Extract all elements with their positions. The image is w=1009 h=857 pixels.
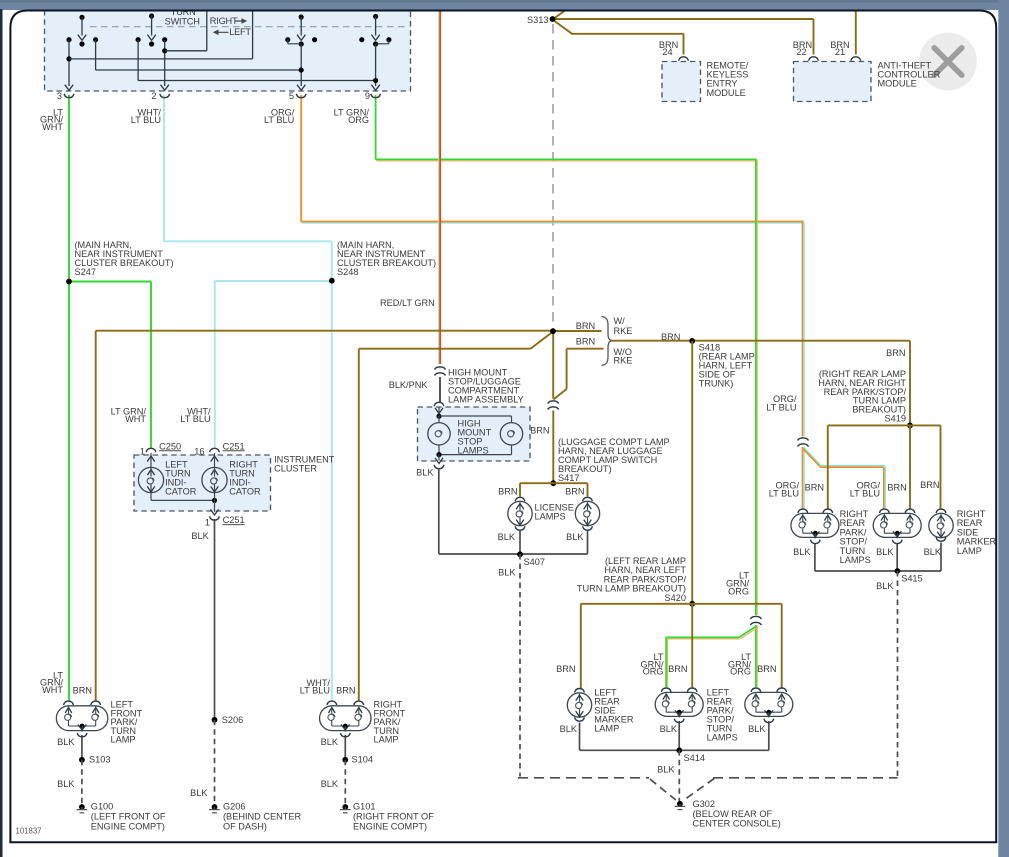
svg-text:S206: S206 — [222, 715, 243, 725]
svg-text:1: 1 — [140, 446, 145, 456]
svg-text:BLK: BLK — [321, 737, 339, 747]
svg-text:LAMPS: LAMPS — [535, 512, 566, 522]
svg-text:S103: S103 — [89, 755, 110, 765]
svg-text:ORG: ORG — [728, 587, 749, 597]
svg-text:BRN: BRN — [336, 686, 355, 696]
svg-text:RIGHT: RIGHT — [210, 16, 238, 26]
svg-text:BLK: BLK — [560, 724, 578, 734]
svg-text:LT BLU: LT BLU — [131, 115, 161, 125]
svg-text:BRN: BRN — [920, 480, 939, 490]
svg-text:LEFT: LEFT — [229, 27, 251, 37]
svg-text:ORG: ORG — [730, 667, 751, 677]
svg-text:BLK: BLK — [321, 779, 339, 789]
svg-text:OF DASH): OF DASH) — [223, 821, 267, 831]
svg-text:LAMPS: LAMPS — [707, 733, 738, 743]
svg-text:WHT: WHT — [42, 685, 63, 695]
svg-text:G206: G206 — [223, 802, 245, 812]
svg-text:BLK: BLK — [57, 737, 75, 747]
svg-text:ENGINE COMPT): ENGINE COMPT) — [353, 821, 427, 831]
svg-text:RED/LT GRN: RED/LT GRN — [380, 298, 435, 308]
svg-text:22: 22 — [796, 47, 806, 57]
svg-text:BLK: BLK — [748, 724, 766, 734]
svg-text:G100: G100 — [91, 802, 113, 812]
svg-text:BRN: BRN — [805, 483, 824, 493]
svg-text:LT BLU: LT BLU — [850, 489, 880, 499]
svg-text:LAMP: LAMP — [374, 735, 399, 745]
svg-text:BRN: BRN — [565, 487, 584, 497]
svg-text:WHT: WHT — [125, 414, 146, 424]
svg-text:S313: S313 — [527, 15, 548, 25]
svg-text:(BELOW REAR OF: (BELOW REAR OF — [693, 809, 773, 819]
svg-text:TRUNK): TRUNK) — [699, 378, 734, 388]
svg-text:CENTER CONSOLE): CENTER CONSOLE) — [693, 819, 781, 829]
svg-text:LAMP: LAMP — [957, 546, 982, 556]
svg-text:BRN: BRN — [668, 664, 687, 674]
svg-text:BLK: BLK — [190, 788, 208, 798]
svg-text:9: 9 — [365, 91, 370, 101]
svg-text:2: 2 — [151, 91, 156, 101]
svg-text:LT BLU: LT BLU — [300, 685, 330, 695]
svg-text:S419: S419 — [885, 414, 906, 424]
svg-text:LAMP: LAMP — [111, 735, 136, 745]
svg-text:CATOR: CATOR — [165, 487, 197, 497]
svg-text:RKE: RKE — [614, 326, 633, 336]
svg-text:(BEHIND CENTER: (BEHIND CENTER — [223, 812, 301, 822]
svg-text:BRN: BRN — [661, 332, 680, 342]
svg-text:3: 3 — [57, 91, 62, 101]
svg-text:24: 24 — [662, 47, 672, 57]
svg-text:LAMPS: LAMPS — [458, 445, 489, 455]
svg-text:WHT: WHT — [42, 122, 63, 132]
svg-text:LAMP: LAMP — [594, 724, 619, 734]
svg-text:BLK: BLK — [876, 547, 894, 557]
svg-text:(RIGHT FRONT OF: (RIGHT FRONT OF — [353, 812, 434, 822]
svg-text:CLUSTER: CLUSTER — [274, 464, 317, 474]
svg-text:S417: S417 — [558, 473, 579, 483]
svg-text:BLK: BLK — [657, 764, 675, 774]
svg-text:ORG: ORG — [348, 115, 369, 125]
svg-text:W/: W/ — [614, 316, 626, 326]
svg-text:S414: S414 — [684, 753, 705, 763]
svg-text:C250: C250 — [159, 441, 181, 451]
svg-text:BLK: BLK — [566, 532, 584, 542]
svg-text:SWITCH: SWITCH — [165, 16, 200, 26]
svg-text:LT BLU: LT BLU — [264, 115, 294, 125]
svg-text:16: 16 — [194, 446, 204, 456]
svg-text:ORG: ORG — [643, 667, 664, 677]
svg-text:BRN: BRN — [556, 664, 575, 674]
svg-text:BLK: BLK — [498, 567, 516, 577]
svg-text:BRN: BRN — [887, 483, 906, 493]
svg-text:BLK: BLK — [498, 532, 516, 542]
svg-text:C251: C251 — [223, 515, 245, 525]
svg-text:G101: G101 — [353, 802, 375, 812]
svg-text:LT BLU: LT BLU — [769, 489, 799, 499]
svg-text:S248: S248 — [337, 267, 358, 277]
svg-text:LAMPS: LAMPS — [840, 555, 871, 565]
svg-text:ENGINE COMPT): ENGINE COMPT) — [91, 821, 165, 831]
svg-text:S247: S247 — [75, 267, 96, 277]
svg-text:21: 21 — [835, 47, 845, 57]
svg-text:CATOR: CATOR — [229, 487, 261, 497]
svg-text:S104: S104 — [352, 755, 373, 765]
svg-text:BRN: BRN — [73, 686, 92, 696]
svg-text:101837: 101837 — [16, 827, 42, 836]
svg-text:S420: S420 — [665, 593, 686, 603]
svg-text:BLK: BLK — [876, 581, 894, 591]
svg-text:BLK: BLK — [660, 724, 678, 734]
svg-text:BLK: BLK — [924, 547, 942, 557]
svg-text:(LEFT FRONT OF: (LEFT FRONT OF — [91, 812, 166, 822]
svg-text:BLK/PNK: BLK/PNK — [389, 380, 429, 390]
svg-text:BRN: BRN — [886, 348, 905, 358]
svg-text:LAMP ASSEMBLY: LAMP ASSEMBLY — [448, 394, 524, 404]
svg-text:BLK: BLK — [416, 468, 434, 478]
svg-text:C251: C251 — [223, 441, 245, 451]
svg-text:BRN: BRN — [576, 321, 595, 331]
svg-text:BRN: BRN — [757, 664, 776, 674]
svg-text:5: 5 — [289, 91, 294, 101]
svg-text:G302: G302 — [693, 799, 715, 809]
svg-text:LT BLU: LT BLU — [766, 402, 796, 412]
svg-text:BLK: BLK — [793, 547, 811, 557]
svg-text:BRN: BRN — [530, 426, 549, 436]
svg-text:RKE: RKE — [614, 355, 633, 365]
svg-text:MODULE: MODULE — [707, 88, 746, 98]
svg-text:BLK: BLK — [57, 779, 75, 789]
svg-text:LT BLU: LT BLU — [180, 414, 210, 424]
svg-text:MODULE: MODULE — [878, 79, 917, 89]
svg-text:S415: S415 — [901, 574, 922, 584]
svg-text:BRN: BRN — [576, 337, 595, 347]
svg-text:S407: S407 — [524, 557, 545, 567]
svg-text:1: 1 — [205, 517, 210, 527]
svg-text:BLK: BLK — [191, 531, 209, 541]
svg-text:BRN: BRN — [498, 487, 517, 497]
